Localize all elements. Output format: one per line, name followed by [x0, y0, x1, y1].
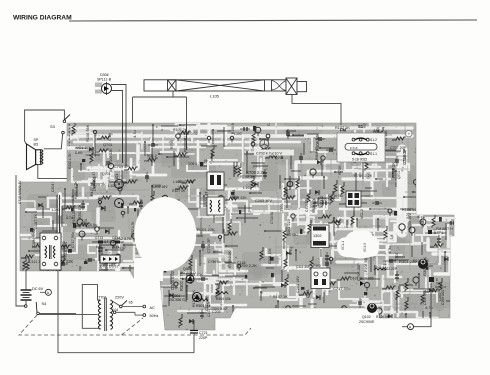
ceramic filter CF1302 [311, 225, 329, 248]
svg-text:L105: L105 [210, 94, 220, 99]
svg-text:C706: C706 [108, 133, 112, 141]
component speckle field [21, 122, 457, 328]
svg-text:VC1-2: VC1-2 [147, 154, 157, 158]
node A (battery terminal) [40, 289, 51, 295]
svg-text:5-18 0022: 5-18 0022 [352, 158, 367, 162]
svg-text:C703 4.7u| 10 V: C703 4.7u| 10 V [256, 152, 283, 156]
test point B TP1 [428, 230, 443, 235]
pcb copper patches [27, 116, 474, 327]
mounting hole (3-spoke) [260, 140, 269, 149]
svg-text:R705: R705 [337, 165, 342, 175]
svg-text:D301: D301 [75, 151, 83, 155]
IF transformer T301 [207, 172, 224, 190]
wire battery feed in wing [57, 195, 60, 271]
svg-text:T101: T101 [280, 203, 284, 212]
svg-text:C301 104: C301 104 [268, 248, 272, 264]
pcb trace edges [0, 116, 466, 318]
svg-text:B TP1: B TP1 [434, 231, 443, 235]
svg-text:2SC536 D: 2SC536 D [180, 271, 196, 275]
svg-text:C103 0.01: C103 0.01 [441, 290, 445, 305]
svg-text:C115: C115 [237, 261, 246, 265]
IF transformer T302 [207, 197, 224, 215]
wire antenna feed continuation [123, 123, 187, 166]
svg-text:L102: L102 [52, 208, 60, 212]
svg-text:Q102: Q102 [362, 315, 371, 319]
svg-text:R702 1K: R702 1K [391, 162, 396, 178]
svg-text:S5: S5 [129, 301, 133, 305]
svg-text:VC1-2: VC1-2 [76, 146, 87, 150]
test point E TP2 [429, 277, 442, 286]
capacitor C703 label [254, 150, 294, 156]
svg-text:VC1-3: VC1-3 [363, 243, 367, 252]
svg-text:FM: FM [340, 128, 347, 133]
svg-text:c b a: c b a [350, 146, 357, 150]
diode block D702 DS-17 [100, 255, 120, 269]
wire left bus [16, 175, 25, 306]
svg-text:C304 0.02: C304 0.02 [93, 176, 97, 191]
svg-text:C304 0.02: C304 0.02 [210, 307, 227, 311]
switch S1 (FM/AM band) [337, 124, 385, 162]
svg-text:C718 2P: C718 2P [207, 238, 211, 253]
title WIRING DIAGRAM [13, 15, 477, 22]
svg-text:WIRING DIAGRAM: WIRING DIAGRAM [13, 15, 72, 22]
svg-text:R107 1K: R107 1K [33, 213, 38, 229]
svg-text:IFT 10.7: IFT 10.7 [286, 233, 299, 237]
svg-text:D101 DCG365: D101 DCG365 [350, 277, 374, 281]
svg-text:R201 10K: R201 10K [78, 204, 82, 219]
resistor R503 [196, 299, 211, 309]
svg-text:C713: C713 [95, 236, 103, 240]
svg-text:R101 22K: R101 22K [231, 196, 247, 200]
transistor Q702 [115, 199, 124, 208]
transistor Q703 [115, 180, 124, 189]
svg-text:+: + [186, 328, 188, 332]
svg-text:AM: AM [373, 129, 380, 134]
svg-text:L102: L102 [243, 186, 251, 190]
svg-text:R107 1K: R107 1K [63, 241, 68, 257]
svg-text:0.01: 0.01 [203, 158, 208, 167]
svg-text:4.7u: 4.7u [90, 147, 95, 155]
output transformer T601 [40, 233, 61, 270]
svg-text:C710 5u: C710 5u [270, 212, 274, 224]
pcb reference labels [29, 112, 442, 319]
svg-text:R301 220: R301 220 [399, 259, 417, 264]
svg-text:R101 22K: R101 22K [197, 227, 215, 232]
AC plug [116, 305, 159, 318]
pcb trace channels [0, 120, 483, 373]
svg-text:R709 2.2K: R709 2.2K [228, 250, 232, 268]
svg-text:0.04: 0.04 [112, 308, 118, 312]
svg-text:Q701: Q701 [275, 156, 284, 160]
svg-text:C710 5u: C710 5u [328, 193, 343, 198]
svg-text:R107 1K: R107 1K [273, 295, 288, 299]
svg-text:L103: L103 [173, 179, 182, 184]
speaker SP 8ohm [27, 138, 41, 170]
svg-text:R108 56K: R108 56K [364, 256, 368, 272]
capacitor C721 220P [186, 320, 208, 353]
svg-text:D301: D301 [114, 173, 119, 183]
resistor R504 [216, 292, 231, 302]
svg-text:R101 22K: R101 22K [109, 148, 113, 164]
svg-text:4.7u: 4.7u [71, 195, 75, 201]
switch S4 [24, 301, 76, 315]
mounting hole (ring) [406, 131, 412, 137]
svg-text:R302 4.7K: R302 4.7K [312, 197, 316, 213]
svg-text:2SC900E: 2SC900E [359, 320, 375, 324]
wire antenna feeds [111, 85, 341, 126]
pcb trace network [8, 115, 476, 328]
svg-text:C715 M56/6.3V: C715 M56/6.3V [18, 180, 22, 204]
svg-text:C710 5u: C710 5u [208, 260, 221, 264]
svg-text:C100 0.01: C100 0.01 [423, 290, 427, 305]
svg-text:TP2: TP2 [436, 282, 442, 286]
svg-text:C714: C714 [112, 236, 120, 240]
svg-text:8Ω: 8Ω [34, 142, 39, 146]
svg-text:C203 16V: C203 16V [408, 213, 412, 230]
switch S5 [111, 300, 133, 314]
svg-text:R504 10k: R504 10k [216, 297, 231, 301]
svg-text:0.01: 0.01 [96, 245, 103, 249]
svg-text:C304 0.02: C304 0.02 [31, 229, 36, 247]
capacitor C714 [110, 236, 124, 249]
capacitor C713 [92, 236, 108, 249]
svg-text:VC1-2: VC1-2 [319, 196, 324, 207]
svg-text:R709 2.2K: R709 2.2K [186, 162, 203, 166]
svg-text:C203 16V: C203 16V [255, 199, 272, 203]
svg-text:C717 50u: C717 50u [71, 232, 75, 248]
battery DC 6V [21, 271, 44, 305]
svg-text:R709 2.2K: R709 2.2K [354, 173, 373, 178]
IF transformer T102 [311, 264, 330, 289]
svg-text:Q701: Q701 [306, 289, 310, 298]
transistor Q104 [418, 259, 428, 269]
IC X301 block [346, 191, 361, 207]
svg-text:4.7u: 4.7u [288, 247, 293, 255]
svg-text:Q701: Q701 [102, 172, 111, 176]
svg-text:R107 1K: R107 1K [172, 189, 186, 193]
wire bottom return [58, 271, 194, 353]
diode D306 SPL11B [95, 73, 112, 95]
svg-text:R106 1K: R106 1K [376, 315, 390, 319]
svg-text:2SC536 G: 2SC536 G [169, 298, 185, 302]
svg-text:C717 50u: C717 50u [333, 286, 350, 291]
variable capacitor VC1 [337, 231, 379, 259]
svg-text:D702 DS-17: D702 DS-17 [100, 265, 119, 269]
svg-text:S4: S4 [42, 301, 48, 306]
antenna rod L105 [144, 78, 307, 95]
inductor L101 [374, 265, 386, 270]
svg-text:4.7u: 4.7u [387, 246, 392, 254]
transistor Q102 [359, 303, 377, 324]
svg-text:R705: R705 [170, 140, 174, 149]
svg-text:1302: 1302 [313, 234, 321, 238]
svg-text:R709 2.2K: R709 2.2K [246, 170, 266, 175]
svg-text:DC 6V: DC 6V [32, 287, 44, 291]
switch S3 [50, 115, 70, 134]
wire speaker to S3 [25, 110, 67, 178]
svg-text:D306: D306 [100, 73, 109, 77]
pcb grain [22, 125, 453, 328]
svg-text:S1-1: S1-1 [370, 152, 377, 156]
svg-text:S1-2: S1-2 [370, 138, 377, 142]
svg-text:R108 56K: R108 56K [85, 124, 90, 142]
svg-text:C709 5P: C709 5P [114, 165, 129, 169]
inductor L601 (speaker coil) [41, 150, 43, 165]
transistor Q303 [180, 267, 196, 283]
svg-text:R304 47: R304 47 [315, 147, 319, 160]
svg-text:C304 0.02: C304 0.02 [181, 132, 198, 136]
svg-text:FM ANT H: FM ANT H [436, 227, 453, 231]
svg-text:Q701: Q701 [103, 142, 113, 147]
svg-text:C111 30P: C111 30P [296, 265, 311, 269]
svg-text:C709 5P: C709 5P [305, 198, 309, 212]
svg-text:R101 22K: R101 22K [72, 207, 76, 224]
svg-text:C710 5u: C710 5u [83, 223, 97, 227]
svg-text:L102: L102 [234, 132, 242, 136]
svg-text:220V: 220V [115, 296, 124, 300]
svg-text:AC: AC [150, 306, 156, 310]
component lead wires [25, 124, 460, 333]
svg-text:S3: S3 [50, 124, 56, 129]
diode D101 label [350, 277, 374, 287]
dashed chassis outline [19, 315, 251, 335]
svg-text:C111 30P: C111 30P [205, 295, 209, 311]
svg-text:220P: 220P [199, 336, 208, 340]
svg-text:T102: T102 [313, 264, 321, 268]
svg-text:Q701: Q701 [397, 171, 401, 179]
svg-text:4.7u: 4.7u [132, 130, 137, 138]
svg-text:R302 4.7K: R302 4.7K [68, 153, 72, 169]
svg-text:C102 22P: C102 22P [382, 267, 398, 271]
svg-text:T701: T701 [98, 296, 107, 300]
svg-text:0.01: 0.01 [113, 245, 120, 249]
svg-text:VC1-2: VC1-2 [360, 209, 364, 219]
svg-text:R503 10k: R503 10k [196, 304, 211, 308]
svg-text:VC1-1: VC1-1 [341, 241, 345, 250]
svg-text:C304 0.02: C304 0.02 [170, 270, 175, 290]
transistor Q301 [169, 293, 202, 303]
svg-text:S1: S1 [358, 124, 364, 129]
svg-text:C203 16V: C203 16V [296, 276, 300, 293]
svg-text:R702 1K: R702 1K [240, 175, 255, 179]
svg-text:C203 16V: C203 16V [152, 185, 168, 189]
svg-text:C709 5P: C709 5P [403, 148, 407, 163]
svg-text:50Hz: 50Hz [150, 314, 159, 318]
dial tuning capacitor cutout [134, 197, 196, 281]
wire dashed board edge [68, 124, 70, 146]
svg-text:SPL11-B: SPL11-B [97, 78, 112, 82]
node A (output) [402, 283, 431, 330]
svg-text:C721: C721 [199, 331, 208, 335]
transformer T701 [39, 285, 124, 331]
